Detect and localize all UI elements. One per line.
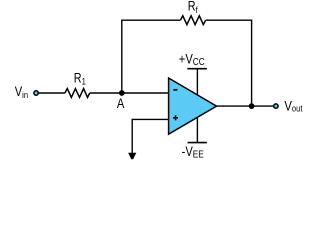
resistor Rf <box>180 16 205 25</box>
op-amp U1 body <box>169 78 217 134</box>
label Vout <box>284 98 303 114</box>
wire: R1 to op-amp inverting input <box>90 92 169 94</box>
output junction dot <box>249 103 255 109</box>
node A junction dot <box>119 90 125 96</box>
wire: op-amp output to Vout terminal <box>217 105 274 107</box>
wire: node A up and top run to Rf <box>122 20 181 93</box>
label -VEE <box>182 144 204 160</box>
wire: non-inverting input to ground <box>132 119 169 153</box>
label node A <box>117 96 125 111</box>
label R1 <box>74 70 86 87</box>
resistor R1 <box>65 89 90 98</box>
label Vin <box>15 84 29 100</box>
op-amp inverting input marker (-) <box>173 89 177 91</box>
wire: Vin terminal to R1 <box>39 92 65 94</box>
wire: Rf right run and down to output junction <box>206 20 252 106</box>
label +VCC <box>179 52 205 68</box>
ground arrow <box>128 153 136 159</box>
label Rf <box>188 0 198 15</box>
svg-text:A: A <box>117 96 125 111</box>
Vout terminal <box>274 104 278 108</box>
-VEE supply rail <box>196 117 198 142</box>
+VCC supply rail <box>196 69 198 95</box>
Vin terminal <box>34 91 38 95</box>
op-amp non-inverting input marker (+) <box>173 115 178 120</box>
